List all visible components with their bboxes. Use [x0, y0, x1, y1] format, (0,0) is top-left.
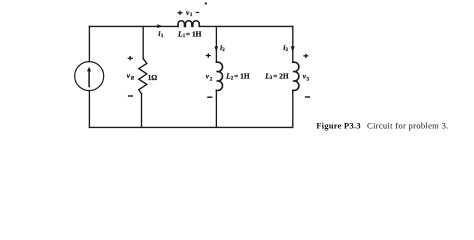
svg-text:= 1H: = 1H	[186, 29, 202, 38]
wire L3 branch lower	[292, 90, 294, 127]
svg-text:3: 3	[285, 48, 288, 53]
svg-text:Figure P3.3: Figure P3.3	[316, 121, 361, 131]
plus sign of v2	[206, 53, 211, 57]
inductor L3	[293, 62, 299, 90]
wire L2 branch lower	[215, 90, 217, 127]
wire L3 branch upper	[292, 26, 294, 62]
wire left branch upper	[88, 26, 90, 61]
arrow i2	[214, 46, 218, 52]
inductor L2	[216, 62, 222, 90]
wire resistor branch upper	[142, 26, 144, 58]
plus sign of vR	[128, 56, 133, 60]
arrow i3	[291, 46, 295, 52]
minus sign of vR	[128, 95, 133, 97]
svg-text:2: 2	[210, 78, 213, 83]
svg-text:2: 2	[222, 48, 225, 53]
resistor 1 ohm zigzag	[139, 59, 147, 94]
wire top rail left segment	[89, 25, 178, 27]
svg-text:1: 1	[190, 13, 193, 18]
minus sign of v2	[207, 96, 212, 98]
svg-text:R: R	[131, 77, 135, 82]
current source arrow shaft	[88, 71, 90, 87]
wire left branch lower	[88, 91, 90, 128]
minus sign of v3	[305, 96, 310, 98]
svg-text:Circuit for problem 3.: Circuit for problem 3.	[367, 121, 449, 131]
plus sign of v3	[303, 54, 308, 58]
wire L2 branch upper	[215, 26, 217, 62]
stray dot artifact	[205, 2, 207, 4]
minus sign of v1	[196, 11, 200, 13]
wire resistor branch lower	[141, 94, 143, 128]
current source I1	[75, 62, 104, 91]
svg-text:3: 3	[307, 77, 310, 82]
svg-text:1: 1	[161, 34, 164, 39]
svg-text:1Ω: 1Ω	[148, 73, 158, 82]
wire top rail right segment	[199, 25, 292, 27]
wire bottom rail	[89, 126, 292, 128]
inductor L1	[178, 21, 199, 27]
plus sign of v1	[178, 11, 183, 15]
arrow i1 on top wire	[157, 24, 162, 28]
current source arrowhead	[87, 67, 91, 72]
svg-text:= 2H: = 2H	[273, 71, 289, 80]
svg-text:= 1H: = 1H	[234, 72, 250, 81]
